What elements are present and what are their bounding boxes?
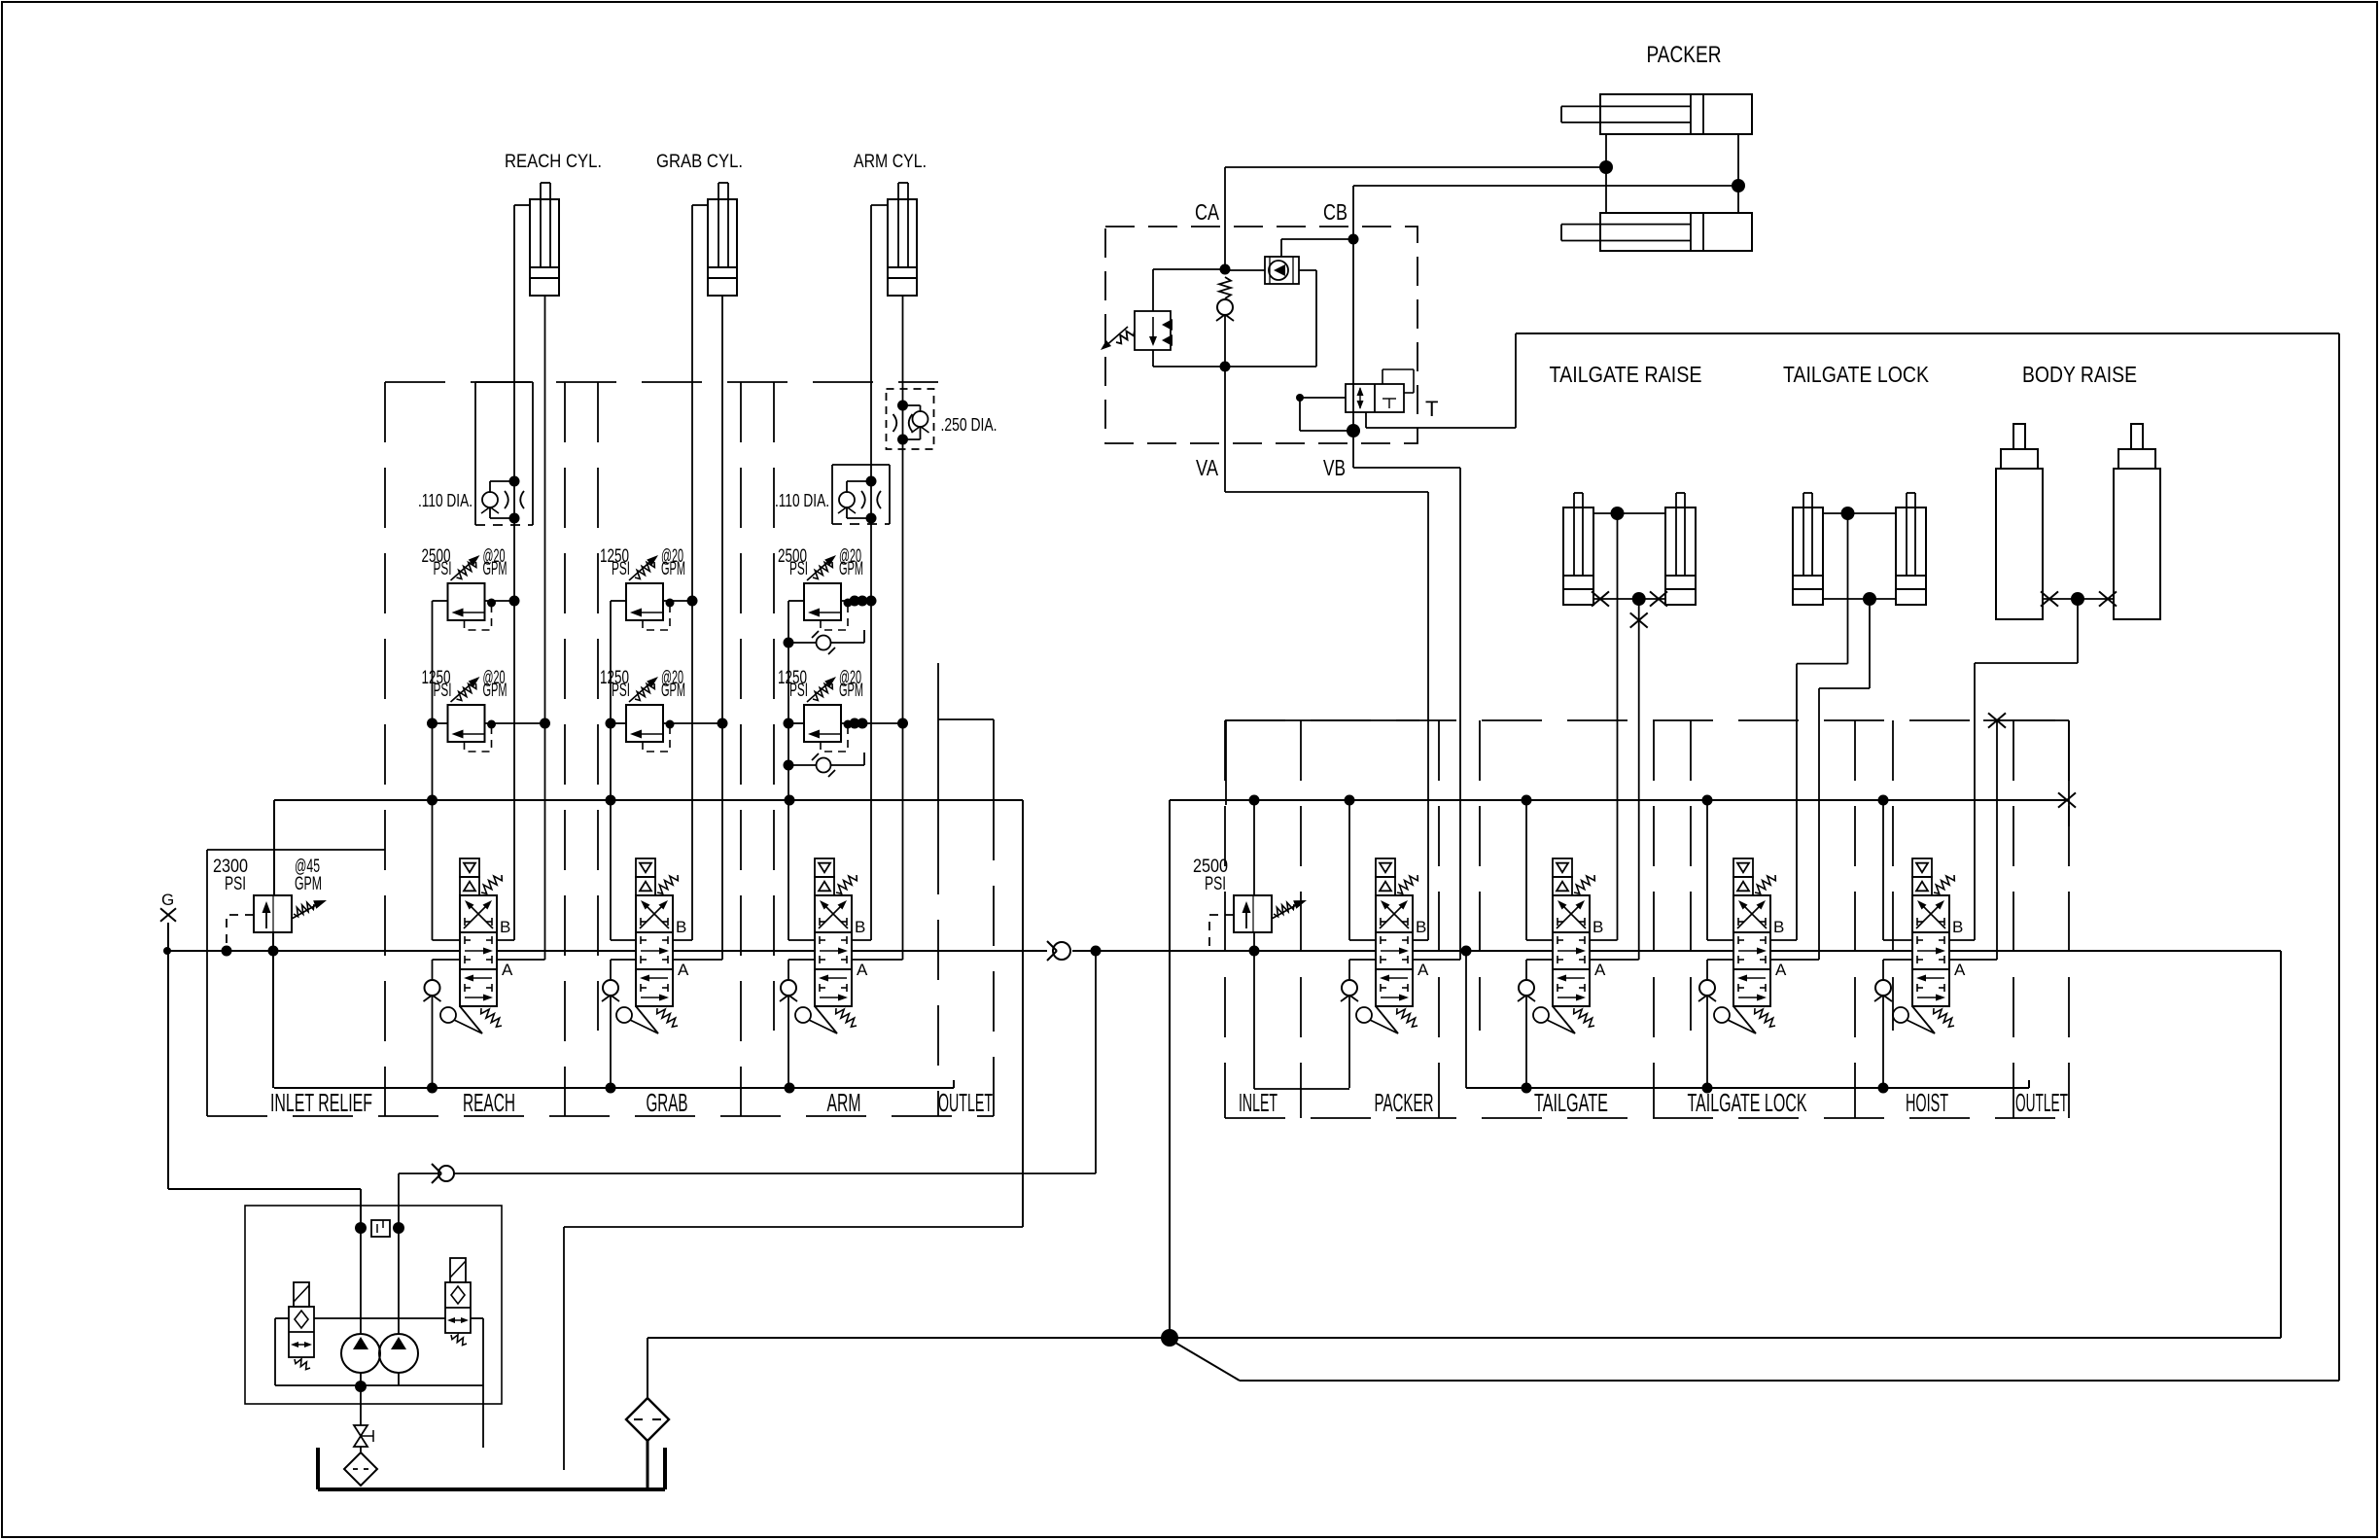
orifice/check assembly .110 DIA (REACH): bypass check <box>490 480 514 482</box>
valve block: pilot relief valve <box>1135 311 1171 350</box>
svg-text:ARM: ARM <box>827 1088 861 1117</box>
anti-cavitation check valve PACKER <box>1349 959 1376 961</box>
valve REACH: bottom spring <box>481 1008 502 1027</box>
wire: gallery drop to main tank junction <box>1169 800 1171 1338</box>
wire: ARM cylinder rod-side line (B) <box>871 204 888 206</box>
valve TAILGATE: bottom spring <box>1574 1008 1594 1027</box>
relief valve REACH port relief 1250 PSI: body <box>448 705 485 742</box>
cylinder ARM: rod <box>897 183 899 267</box>
valve TAILGATE LOCK: center position arrow <box>1738 950 1760 952</box>
wire: GRAB valve A port stubs <box>673 959 722 961</box>
relief valve REACH port relief 1250 PSI: internal arrow <box>458 733 485 735</box>
shut-off valve on suction <box>360 1386 362 1425</box>
wire: pump feed line to right bank <box>454 1172 1096 1174</box>
relief valve GRAB port relief 1250 PSI: spring and adjust arrow <box>635 683 654 701</box>
valve PACKER: crossed arrows position <box>1380 903 1405 928</box>
anti-cavitation check valve TAILGATE <box>1526 959 1553 961</box>
wire: HOIST valve A line plugged at bank top <box>1949 959 1997 961</box>
valve ARM: crossed arrows position <box>819 903 844 928</box>
cylinder tailgate lock right: piston <box>1896 575 1926 577</box>
wire: main line return to tank node <box>1170 1337 2281 1339</box>
quick disconnects on body raise line <box>2041 591 2058 606</box>
unloader valve left: body <box>289 1307 314 1357</box>
valve PACKER: pilot symbol boxes <box>1376 858 1395 877</box>
check valve on main line between banks <box>1053 942 1070 960</box>
cylinder ARM: piston <box>888 266 917 268</box>
orifice/check assembly .110 DIA (ARM): bypass check <box>847 480 871 482</box>
cylinder body raise right: collar <box>2118 449 2155 469</box>
cylinder tailgate raise left: piston <box>1563 575 1593 577</box>
junction dots GRAB column <box>606 718 616 729</box>
cylinder GRAB: piston <box>708 266 737 268</box>
orifice/check assembly .110 DIA (ARM): enclosure <box>831 465 833 524</box>
svg-text:INLET RELIEF: INLET RELIEF <box>270 1088 372 1117</box>
svg-text:HOIST: HOIST <box>1906 1088 1948 1117</box>
anti-cavitation check valve HOIST <box>1883 959 1912 961</box>
orifice block between pump lines <box>371 1220 390 1237</box>
svg-text:TAILGATE RAISE: TAILGATE RAISE <box>1550 362 1702 387</box>
unloader valve right: spring <box>451 1335 467 1346</box>
wire: unloader left port to VB junction <box>1300 397 1346 399</box>
valve GRAB: bottom position arrows <box>647 977 668 979</box>
valve block: unloader spool valve <box>1346 384 1404 412</box>
svg-text:GPM: GPM <box>295 874 322 894</box>
svg-text:A: A <box>678 961 689 979</box>
packer cylinder top: piston <box>1690 94 1692 134</box>
unloader valve right: flow arrows <box>449 1319 467 1321</box>
svg-text:PSI: PSI <box>789 559 808 579</box>
relief valve ARM port relief 1250 PSI: internal arrow <box>814 733 841 735</box>
wire: tank loop top line <box>1516 332 2339 334</box>
wire: flow control left to CA <box>1225 269 1265 271</box>
orifice/check assembly .250 DIA (ARM): orifice <box>893 414 913 432</box>
inlet relief valve inlet relief right: spring and adjust arrow <box>1274 902 1294 916</box>
cylinder REACH: piston <box>530 266 559 268</box>
wire: right inlet feed to packer check <box>1253 951 1255 1089</box>
valve TAILGATE: pilot symbol boxes <box>1553 858 1572 877</box>
svg-text:.110 DIA.: .110 DIA. <box>775 491 829 510</box>
svg-text:B: B <box>1416 918 1426 936</box>
wire: PACKER valve A to valve block VB <box>1413 959 1460 961</box>
svg-text:PACKER: PACKER <box>1647 42 1722 68</box>
valve ARM: top spring <box>836 875 857 893</box>
svg-text:GPM: GPM <box>839 559 863 579</box>
valve ARM: center position arrow <box>820 950 841 952</box>
wire: right relief to gallery and main line <box>1253 800 1255 895</box>
svg-text:PSI: PSI <box>612 559 630 579</box>
junction dots ARM column <box>784 718 794 729</box>
cylinder REACH: body <box>530 199 559 296</box>
right valve bank: dashed enclosure borders <box>1225 719 2069 721</box>
svg-text:GRAB: GRAB <box>647 1088 688 1117</box>
valve TAILGATE LOCK: manual lever <box>1714 1007 1730 1023</box>
svg-text:PSI: PSI <box>612 681 630 701</box>
valve TAILGATE LOCK: bottom position arrows <box>1744 977 1766 979</box>
junction dots at orifice <box>355 1222 367 1234</box>
cylinder tailgate lock right: body <box>1896 507 1926 605</box>
wire: CB feed to packer <box>1353 185 1738 187</box>
relief valve GRAB port relief 1250 PSI: spring and adjust arrow <box>635 562 654 579</box>
valve ARM: bottom spring <box>836 1008 857 1027</box>
junction dots on right gallery <box>1249 795 1260 806</box>
svg-text:T: T <box>1425 397 1438 421</box>
relief valve GRAB port relief 1250 PSI: internal arrow <box>636 733 663 735</box>
wire: tailgate lock bottom interconnect <box>1823 598 1896 600</box>
cylinder GRAB: rod <box>717 183 719 267</box>
wire: tank loop diagonal to junction <box>1175 1343 1240 1381</box>
valve ARM: pilot symbol boxes <box>815 858 834 877</box>
svg-text:A: A <box>1594 961 1606 979</box>
cylinder REACH: rod <box>540 183 542 267</box>
power unit enclosure <box>245 1206 502 1404</box>
svg-text:REACH: REACH <box>463 1088 515 1117</box>
inlet relief pilot dashed line <box>227 915 254 951</box>
svg-text:PSI: PSI <box>434 559 452 579</box>
unloader valve left: solenoid <box>294 1282 309 1307</box>
ARM bypass check upper <box>788 642 816 644</box>
cylinder tailgate lock right: rod <box>1906 493 1907 576</box>
svg-text:PSI: PSI <box>1205 874 1226 894</box>
wire: left bank power-beyond stub at outlet <box>937 663 939 834</box>
wire: tank loop right edge <box>2338 333 2340 1381</box>
relief valve ARM port relief 1250 PSI: body <box>804 705 841 742</box>
wire: REACH cylinder rod-side line (B) <box>514 204 530 206</box>
junction: pump2 feed into main line <box>1091 946 1102 957</box>
pump P1 <box>341 1334 380 1373</box>
valve block: unloader pilot bracket <box>1382 369 1383 384</box>
right valve bank: solid border segments <box>1226 719 1419 721</box>
wire: CA line through block <box>1224 167 1226 269</box>
junction dots on left return <box>427 1083 437 1094</box>
cylinder body raise right: body <box>2114 469 2160 619</box>
valve TAILGATE: bottom position arrows <box>1563 977 1585 979</box>
packer cylinder top: rod <box>1561 105 1691 107</box>
right inlet relief pilot dashed line <box>1209 915 1234 951</box>
svg-text:A: A <box>1417 961 1429 979</box>
left valve bank: inlet relief section solid border <box>207 849 385 851</box>
cylinder body raise left: body <box>1996 469 2043 619</box>
valve GRAB: center position arrow <box>641 950 662 952</box>
cylinder tailgate raise right: piston <box>1665 575 1696 577</box>
svg-text:PSI: PSI <box>225 874 246 894</box>
gallery right end plug X <box>2058 792 2076 807</box>
valve REACH: pilot symbol boxes <box>460 858 479 877</box>
valve ARM: bottom position arrows <box>825 977 847 979</box>
return filter <box>626 1398 669 1441</box>
valve REACH: top spring <box>481 875 502 893</box>
wire: TAILGATE valve A to tailgate cylinders bottom <box>1590 959 1639 961</box>
cylinder tailgate lock left: piston <box>1793 575 1823 577</box>
relief valve REACH port relief 2500 PSI: pilot dash <box>465 606 492 630</box>
junction: relief bottom on main line <box>268 946 279 957</box>
svg-text:G: G <box>161 891 174 909</box>
valve block: pilot check spring <box>1219 277 1231 298</box>
ARM extra junction dots at relief inputs <box>850 596 860 607</box>
orifice/check assembly .110 DIA (REACH): orifice <box>505 491 524 508</box>
wire: pump2 outlet to check and main line <box>398 1173 400 1228</box>
packer cylinder top: body <box>1600 94 1752 134</box>
valve HOIST: center position arrow <box>1917 950 1939 952</box>
wire: tailgate raise bottom interconnect <box>1593 598 1665 600</box>
svg-text:TAILGATE LOCK: TAILGATE LOCK <box>1783 362 1930 387</box>
wire: left bank bottom return line <box>274 1087 954 1089</box>
wire: TAILGATE make-up column from gallery <box>1525 800 1527 940</box>
cylinder tailgate raise left: body <box>1563 507 1593 605</box>
valve REACH: bottom position arrows <box>471 977 492 979</box>
valve HOIST: pilot symbol boxes <box>1912 858 1932 877</box>
valve TAILGATE: top spring <box>1574 875 1594 893</box>
unloader valve left: spring <box>295 1359 310 1370</box>
anti-cavitation check valve TAILGATE LOCK <box>1707 959 1733 961</box>
orifice/check assembly .250 DIA (ARM): bypass check <box>903 404 921 406</box>
wire: ARM top relief ports <box>788 600 804 602</box>
cylinder tailgate lock left: rod <box>1802 493 1804 576</box>
valve REACH: crossed arrows position <box>464 903 489 928</box>
cylinder tailgate raise left: rod <box>1573 493 1575 576</box>
wire: REACH relief/make-up column <box>432 601 434 940</box>
relief valve ARM port relief 2500 PSI: body <box>804 583 841 620</box>
svg-text:B: B <box>500 918 510 936</box>
svg-text:PSI: PSI <box>789 681 808 701</box>
left valve bank: dashed enclosure borders <box>385 381 938 383</box>
wire: right bank return line <box>1465 951 1467 1088</box>
junction: return tap on main line <box>1461 946 1472 957</box>
valve ARM: body <box>815 895 852 1006</box>
wire: main line end drop to tank return <box>2280 951 2282 1338</box>
wire: GRAB relief/make-up column <box>610 601 612 940</box>
cylinder tailgate lock left: body <box>1793 507 1823 605</box>
valve TAILGATE: body <box>1553 895 1590 1006</box>
anti-cavitation check valve REACH <box>432 960 434 980</box>
valve block: pilot check valve <box>1217 299 1233 315</box>
wire: REACH bottom relief ports <box>433 722 448 724</box>
wire: ARM bottom relief ports <box>788 722 804 724</box>
wire: tank node to filter <box>647 1337 1170 1339</box>
relief valve REACH port relief 2500 PSI: spring and adjust arrow <box>457 562 476 579</box>
wire: gallery drop to left-bank outlet return <box>1022 800 1024 1227</box>
relief valve GRAB port relief 1250 PSI: pilot dash <box>643 727 670 752</box>
relief valve REACH port relief 1250 PSI: spring and adjust arrow <box>457 683 476 701</box>
reservoir tank <box>316 1448 320 1489</box>
svg-text:VB: VB <box>1323 455 1346 480</box>
svg-text:GPM: GPM <box>661 559 685 579</box>
valve ARM: manual lever <box>795 1007 811 1023</box>
valve HOIST: crossed arrows position <box>1916 903 1942 928</box>
valve TAILGATE: manual lever <box>1533 1007 1549 1023</box>
junction dots REACH column <box>427 718 437 729</box>
valve TAILGATE: crossed arrows position <box>1557 903 1582 928</box>
junction: main tank node <box>1161 1329 1178 1347</box>
svg-text:TAILGATE: TAILGATE <box>1534 1088 1608 1117</box>
relief valve ARM port relief 1250 PSI: spring and adjust arrow <box>813 683 832 701</box>
relief valve GRAB port relief 1250 PSI: internal arrow <box>636 612 663 613</box>
cylinder body raise left: rod <box>2013 424 2025 449</box>
wire: tank gallery left segment <box>274 799 1023 801</box>
relief valve ARM port relief 2500 PSI: pilot dash <box>821 606 848 630</box>
orifice/check assembly .110 DIA (REACH): enclosure <box>474 382 476 525</box>
wire: main open-center pressure line <box>167 950 460 952</box>
junction CA-packer <box>1599 160 1613 174</box>
svg-text:REACH CYL.: REACH CYL. <box>505 152 602 172</box>
svg-text:.250 DIA.: .250 DIA. <box>941 415 997 435</box>
wire: CB/VB line through block <box>1352 186 1354 431</box>
packer cylinder bottom: body <box>1600 213 1752 251</box>
svg-text:INLET: INLET <box>1239 1088 1277 1117</box>
cylinder body raise right: rod <box>2131 424 2143 449</box>
unloader valve right: body <box>445 1282 471 1333</box>
wire: GRAB valve B port stubs <box>611 939 636 941</box>
relief valve REACH port relief 2500 PSI: internal arrow <box>458 612 485 613</box>
valve GRAB: body <box>636 895 673 1006</box>
wire: ARM relief/make-up column <box>787 601 789 940</box>
wire: flow control right to pilot line <box>1299 269 1316 271</box>
wire: PACKER make-up column from gallery <box>1348 800 1350 940</box>
wire: tank loop bottom line <box>1240 1380 2339 1382</box>
wire: filter to tank <box>647 1441 649 1489</box>
inlet relief valve inlet relief right: body <box>1234 895 1272 932</box>
unloader valve right: check symbol <box>451 1286 465 1304</box>
valve GRAB: crossed arrows position <box>640 903 665 928</box>
wire: inlet relief column <box>273 800 275 895</box>
anti-cavitation check valve GRAB <box>610 960 612 980</box>
valve PACKER: center position arrow <box>1381 950 1402 952</box>
wire: REACH valve A port stubs <box>497 959 545 961</box>
wire: TAILGATE LOCK make-up column from gallery <box>1706 800 1708 940</box>
wire: G line down to pump suction <box>167 923 169 1189</box>
wire: TAILGATE valve B to tailgate cylinders top <box>1590 939 1618 941</box>
svg-text:A: A <box>502 961 513 979</box>
valve HOIST: top spring <box>1934 875 1954 893</box>
relief valve ARM port relief 1250 PSI: pilot dash <box>821 727 848 752</box>
wire: TAILGATE LOCK valve A line <box>1770 959 1819 961</box>
valve REACH: manual lever <box>440 1007 456 1023</box>
wire: left bank outlet return drop to tank <box>564 1226 1023 1228</box>
valve HOIST: bottom position arrows <box>1923 977 1944 979</box>
valve REACH: center position arrow <box>465 950 486 952</box>
valve TAILGATE LOCK: body <box>1733 895 1770 1006</box>
junction dots CB line <box>1348 234 1359 245</box>
inlet relief valve inlet relief right: internal up arrow <box>1245 907 1247 928</box>
suction strainer <box>360 1447 362 1452</box>
wire: TAILGATE LOCK valve B line <box>1770 939 1797 941</box>
svg-text:OUTLET: OUTLET <box>2015 1088 2068 1117</box>
cylinder tailgate raise right: rod <box>1675 493 1677 576</box>
svg-text:CA: CA <box>1195 199 1220 225</box>
valve PACKER: bottom spring <box>1397 1008 1417 1027</box>
wire: HOIST valve B line to body raise <box>1949 939 1975 941</box>
wire: packer cylinders right interconnect <box>1737 134 1739 213</box>
valve block: dashed enclosure <box>1105 227 1417 443</box>
wire: flow control to CB tap <box>1280 239 1282 257</box>
pump outlet check valve <box>438 1166 454 1181</box>
wire: ARM valve A port stubs <box>852 959 903 961</box>
unloader valve right: solenoid <box>450 1258 466 1282</box>
cylinder ARM: body <box>888 199 917 296</box>
svg-text:VA: VA <box>1196 455 1219 480</box>
wire: tailgate lock top interconnect <box>1823 512 1896 514</box>
svg-text:GRAB CYL.: GRAB CYL. <box>656 152 743 172</box>
relief valve GRAB port relief 1250 PSI: pilot dash <box>643 606 670 630</box>
svg-text:GPM: GPM <box>483 681 507 701</box>
quick disconnects on tailgate raise bottom <box>1592 591 1609 606</box>
valve TAILGATE: center position arrow <box>1557 950 1579 952</box>
wire: GRAB top relief ports <box>611 600 626 602</box>
pump P2 <box>379 1334 418 1373</box>
svg-text:GPM: GPM <box>839 681 863 701</box>
junction: G line start on main line <box>163 947 171 955</box>
valve HOIST: body <box>1912 895 1949 1006</box>
valve block: pilot relief adjust arrow <box>1116 331 1135 343</box>
svg-text:OUTLET: OUTLET <box>938 1088 993 1117</box>
svg-text:A: A <box>1954 961 1966 979</box>
packer cylinder bottom: piston <box>1690 213 1692 251</box>
svg-text:B: B <box>1773 918 1784 936</box>
wire: PACKER valve B to valve block VA <box>1413 939 1428 941</box>
quick disconnect X on tailgate A line <box>1630 612 1648 627</box>
anti-cavitation check valve ARM <box>787 960 789 980</box>
relief valve ARM port relief 2500 PSI: internal arrow <box>814 612 841 613</box>
orifice/check assembly .110 DIA (ARM): junctions <box>866 476 877 487</box>
svg-text:.110 DIA.: .110 DIA. <box>418 491 472 510</box>
svg-text:PSI: PSI <box>434 681 452 701</box>
svg-text:ARM CYL.: ARM CYL. <box>854 152 927 172</box>
svg-text:GPM: GPM <box>661 681 685 701</box>
relief valve REACH port relief 2500 PSI: body <box>448 583 485 620</box>
wire: REACH cylinder piston-side line (A) <box>544 296 546 960</box>
wire: pump outlets <box>360 1228 362 1334</box>
wire: GRAB cylinder piston-side line (A) <box>721 296 723 960</box>
valve REACH: body <box>460 895 497 1006</box>
wire: pilot relief bottom to pilot line <box>1152 350 1154 367</box>
valve TAILGATE LOCK: bottom spring <box>1755 1008 1775 1027</box>
junction: right relief on main line <box>1249 946 1260 957</box>
orifice/check assembly .250 DIA (ARM): junctions <box>897 401 908 411</box>
valve PACKER: manual lever <box>1356 1007 1372 1023</box>
wire: unloader bottom port to tank loop <box>1365 412 1367 428</box>
valve TAILGATE LOCK: top spring <box>1755 875 1775 893</box>
orifice/check assembly .110 DIA (ARM): orifice <box>861 491 881 508</box>
unloader valve left: flow arrows <box>293 1344 310 1346</box>
wire: GRAB cylinder rod-side line (B) <box>692 204 708 206</box>
svg-text:B: B <box>1592 918 1603 936</box>
svg-text:B: B <box>855 918 865 936</box>
wire: tailgate raise top interconnect <box>1593 512 1665 514</box>
orifice/check assembly .110 DIA (REACH): junctions <box>509 476 520 487</box>
cylinder body raise left: collar <box>2001 449 2038 469</box>
wire: ARM valve B port stubs <box>788 939 815 941</box>
cylinder GRAB: body <box>708 199 737 296</box>
svg-text:PACKER: PACKER <box>1375 1088 1434 1117</box>
wire: HOIST make-up column from gallery <box>1882 800 1884 940</box>
junction: pilot to main line <box>222 946 232 957</box>
valve GRAB: bottom spring <box>657 1008 678 1027</box>
valve PACKER: top spring <box>1397 875 1417 893</box>
svg-text:GPM: GPM <box>483 559 507 579</box>
valve TAILGATE LOCK: pilot symbol boxes <box>1733 858 1753 877</box>
cylinder tailgate raise right: body <box>1665 507 1696 605</box>
wire: CA feed to packer <box>1225 166 1606 168</box>
relief valve GRAB port relief 1250 PSI: body <box>626 705 663 742</box>
valve HOIST: bottom spring <box>1934 1008 1954 1027</box>
junction dots on right return <box>1522 1083 1532 1094</box>
valve GRAB: manual lever <box>616 1007 632 1023</box>
inlet relief valve inlet relief left: spring and adjust arrow <box>294 902 314 916</box>
relief valve REACH port relief 1250 PSI: pilot dash <box>465 727 492 752</box>
wire: body raise interconnect <box>2043 598 2114 600</box>
svg-text:CB: CB <box>1323 199 1347 225</box>
relief valve GRAB port relief 1250 PSI: body <box>626 583 663 620</box>
valve PACKER: body <box>1376 895 1413 1006</box>
